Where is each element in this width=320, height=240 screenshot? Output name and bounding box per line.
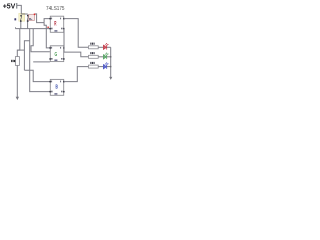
LED D2 green bbox=[103, 53, 108, 59]
wire S2 to bus bbox=[27, 22, 29, 29]
flip-flop U1a (R) bbox=[49, 16, 64, 32]
resistor R3 row2 bbox=[89, 55, 99, 58]
switch S1 bbox=[20, 15, 22, 17]
wire vertical to FF3 CLK bbox=[30, 29, 50, 92]
junction row3 bbox=[110, 66, 111, 67]
cathode bus wire bbox=[110, 47, 112, 77]
bus wire (clock/bus) bbox=[15, 28, 50, 30]
wire FF1 Qb to row2 bbox=[64, 29, 89, 57]
svg-text:R: R bbox=[54, 20, 56, 27]
wire branch to resistor net bbox=[17, 49, 24, 51]
wire to FF2 D bbox=[44, 23, 50, 48]
state dot (red) on pushbutton output bbox=[34, 14, 36, 16]
junction row2 bbox=[110, 56, 111, 57]
wire FF1 Q to row1 bbox=[64, 19, 89, 48]
wire branch bbox=[24, 41, 29, 71]
pushbutton (pink, selected) bbox=[29, 14, 35, 20]
highlight box on switch S1 bbox=[19, 13, 25, 21]
wire to FF2 lower bbox=[33, 61, 50, 63]
value label 1k bbox=[11, 60, 15, 62]
switch S2 bbox=[27, 15, 29, 17]
svg-text:B: B bbox=[56, 85, 58, 91]
LED D3 blue bbox=[103, 63, 108, 69]
resistor R2 row1 bbox=[89, 46, 99, 49]
wire resistor to ground arrow bbox=[16, 65, 18, 97]
resistor R4 row3 bbox=[89, 65, 99, 68]
flip-flop U1b (G) bbox=[49, 46, 64, 62]
wire +5V to switch rail bbox=[17, 5, 22, 14]
flip-flop U1c (B) bbox=[49, 79, 64, 95]
wire bus to pulldown resistor bbox=[17, 29, 20, 57]
resistor R1 1k pulldown bbox=[15, 57, 19, 66]
svg-text:74LS175: 74LS175 bbox=[46, 6, 65, 12]
wire S1 to bus bbox=[20, 22, 22, 29]
ground arrow left bbox=[16, 97, 19, 100]
wire vertical to FF2 bbox=[31, 29, 50, 52]
svg-text:+5V: +5V bbox=[3, 4, 16, 11]
wire to FF3 D bbox=[24, 70, 50, 81]
junction dot red near FF1 CLK bbox=[47, 27, 49, 28]
wire switch top rail bbox=[21, 13, 27, 15]
LED D1 red bbox=[103, 43, 108, 49]
power terminal +5V tick bbox=[16, 3, 18, 9]
svg-text:G: G bbox=[55, 52, 58, 58]
wire FF3 Q to row3 bbox=[64, 67, 89, 82]
wire to FF1 D bbox=[44, 19, 50, 23]
ground arrow right bbox=[109, 77, 112, 80]
wire pushbutton output to D inputs bbox=[35, 14, 44, 23]
label S1 (blue) bbox=[14, 18, 16, 20]
bus end stub bbox=[15, 27, 17, 28]
